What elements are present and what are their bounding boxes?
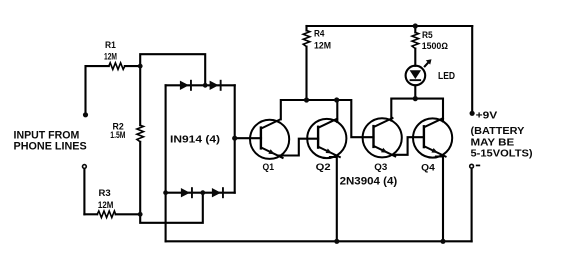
svg-text:12M: 12M bbox=[98, 200, 114, 210]
svg-text:1500Ω: 1500Ω bbox=[422, 41, 448, 51]
svg-text:Q3: Q3 bbox=[374, 162, 387, 173]
svg-text:5-15VOLTS): 5-15VOLTS) bbox=[471, 149, 533, 160]
svg-text:(BATTERY: (BATTERY bbox=[471, 126, 525, 137]
svg-text:IN914 (4): IN914 (4) bbox=[170, 134, 220, 145]
svg-text:MAY BE: MAY BE bbox=[471, 137, 515, 148]
svg-text:LED: LED bbox=[438, 71, 455, 82]
svg-text:+9V: +9V bbox=[476, 111, 498, 122]
svg-text:Q2: Q2 bbox=[316, 162, 331, 173]
svg-text:12M: 12M bbox=[104, 52, 117, 62]
svg-text:R1: R1 bbox=[105, 40, 116, 50]
svg-text:1.5M: 1.5M bbox=[110, 130, 125, 140]
svg-text:R5: R5 bbox=[422, 30, 433, 40]
svg-text:R3: R3 bbox=[99, 188, 111, 198]
svg-text:PHONE LINES: PHONE LINES bbox=[14, 141, 87, 153]
svg-text:Q1: Q1 bbox=[263, 162, 275, 173]
svg-text:R4: R4 bbox=[314, 29, 324, 39]
svg-text:12M: 12M bbox=[314, 41, 331, 51]
svg-text:Q4: Q4 bbox=[421, 162, 435, 173]
svg-text:2N3904 (4): 2N3904 (4) bbox=[340, 176, 398, 188]
